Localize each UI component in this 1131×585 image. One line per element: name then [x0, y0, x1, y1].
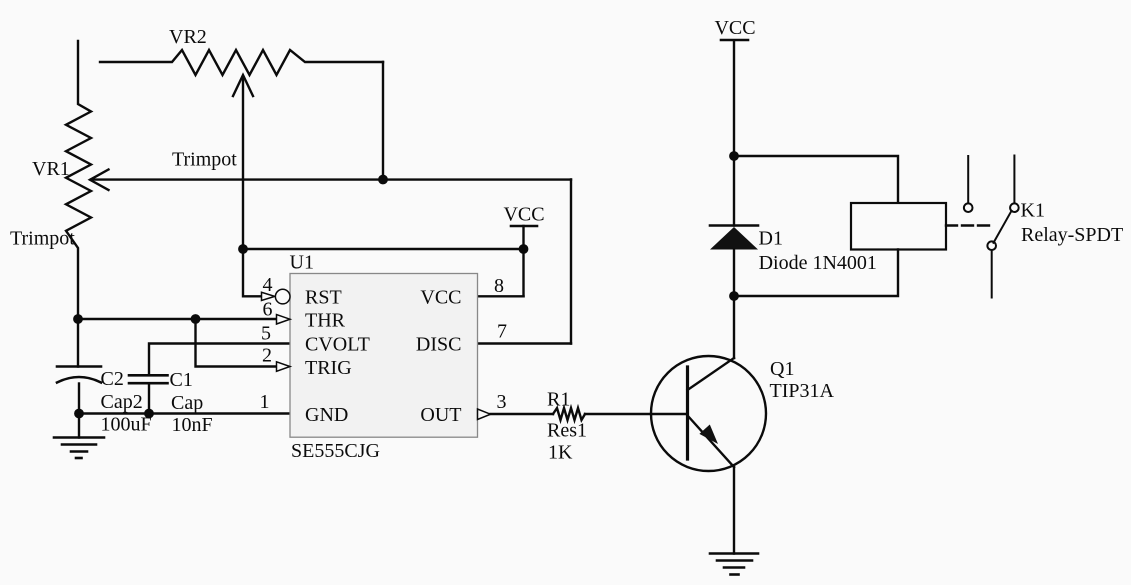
svg-text:VR1: VR1: [32, 158, 70, 180]
op-amp U1 body (555 timer): [290, 274, 478, 438]
power VCC symbol (over pin 8): [503, 204, 544, 297]
node junction RST/VCC branch: [238, 244, 248, 254]
svg-text:CVOLT: CVOLT: [305, 334, 370, 356]
svg-text:TIP31A: TIP31A: [770, 380, 835, 402]
node junction C2/ground: [74, 409, 84, 419]
svg-text:Cap: Cap: [171, 392, 203, 414]
svg-text:VCC: VCC: [503, 204, 544, 226]
pin 4 RST symbol (triangle + bubble): [262, 289, 291, 304]
wire DISC pin 7: [478, 342, 572, 344]
pin 2 TRIG symbol: [277, 362, 291, 372]
svg-text:K1: K1: [1021, 200, 1045, 222]
svg-text:C1: C1: [170, 369, 193, 391]
node junction VR2 right / wiper line: [378, 175, 388, 185]
relay K1 common pole: [987, 241, 996, 297]
node junction THR/TRIG tie: [191, 314, 201, 324]
wire DISC vertical: [570, 180, 572, 344]
svg-text:R1: R1: [547, 389, 570, 411]
svg-text:THR: THR: [305, 310, 346, 332]
wire THR line: [78, 318, 277, 320]
svg-text:6: 6: [263, 299, 273, 321]
transistor Q1 collector diagonal: [688, 358, 735, 390]
svg-text:5: 5: [261, 323, 271, 345]
wire OUT to R1: [491, 413, 554, 415]
transistor Q1 emitter arrow: [699, 425, 718, 445]
svg-text:OUT: OUT: [420, 404, 461, 426]
wire RST branch to VCC rail: [243, 248, 524, 250]
wire collector: [733, 296, 735, 358]
svg-text:TRIG: TRIG: [305, 357, 352, 379]
power VCC symbol top: [714, 17, 755, 40]
svg-text:VR2: VR2: [169, 26, 207, 48]
svg-text:Diode 1N4001: Diode 1N4001: [759, 252, 877, 274]
svg-text:Q1: Q1: [770, 358, 794, 380]
svg-text:VCC: VCC: [420, 287, 461, 309]
svg-text:DISC: DISC: [416, 334, 462, 356]
resistor VR1 wiper arrow: [90, 170, 109, 191]
node junction VCC pin8 branch: [519, 244, 529, 254]
wire relay top: [734, 156, 898, 203]
transistor Q1 base bar: [686, 367, 689, 459]
wire CVOLT line: [149, 344, 290, 376]
ground symbol under Q1: [710, 554, 758, 575]
wire GND line: [79, 412, 290, 414]
wire VCC to diode: [733, 156, 735, 226]
wire relay bottom: [734, 250, 898, 297]
svg-text:U1: U1: [290, 252, 314, 274]
wire R1 to base: [585, 413, 688, 415]
svg-text:3: 3: [497, 391, 507, 413]
diode D1: [710, 226, 758, 250]
svg-text:VCC: VCC: [714, 17, 755, 39]
wire wiper VR1 to DISC: [91, 178, 571, 180]
wire TRIG branch: [196, 319, 277, 367]
wire diode to collector node: [733, 250, 735, 297]
svg-text:Res1: Res1: [547, 420, 587, 442]
capacitor C1: [129, 375, 168, 413]
wire VCC down: [733, 41, 735, 156]
transistor Q1 emitter diagonal: [688, 416, 735, 468]
svg-text:C2: C2: [101, 368, 124, 390]
node junction VCC/relay top: [729, 151, 739, 161]
resistor VR1 body: [66, 41, 91, 367]
svg-text:2: 2: [262, 345, 272, 367]
resistor VR2 body: [100, 50, 383, 75]
relay K1 switch contact left: [964, 156, 973, 212]
resistor VR2 wiper arrow: [233, 75, 253, 96]
svg-text:SE555CJG: SE555CJG: [291, 440, 380, 462]
relay K1 actuator dashed link: [946, 224, 993, 226]
relay K1 coil: [851, 203, 946, 250]
pin 6 THR symbol: [277, 315, 291, 325]
wire VR2 wiper down to RST: [243, 77, 262, 296]
transistor Q1 circle: [651, 356, 766, 471]
svg-text:RST: RST: [305, 287, 342, 309]
svg-text:7: 7: [497, 321, 507, 343]
svg-text:100uF: 100uF: [101, 414, 152, 436]
node junction THR at VR1: [73, 314, 83, 324]
svg-text:8: 8: [494, 275, 504, 297]
node junction relay bottom/collector: [729, 291, 739, 301]
resistor R1 body: [553, 408, 585, 420]
svg-text:Cap2: Cap2: [101, 391, 143, 413]
ground symbol left: [54, 438, 104, 459]
svg-text:10nF: 10nF: [172, 414, 213, 436]
node junction C1/ground: [144, 409, 154, 419]
svg-text:4: 4: [263, 274, 273, 296]
capacitor C2: [57, 367, 101, 414]
pin 3 OUT symbol: [478, 409, 491, 420]
svg-text:Relay-SPDT: Relay-SPDT: [1021, 224, 1123, 246]
svg-text:1K: 1K: [548, 442, 573, 464]
relay K1 switch contact right: [1010, 156, 1019, 213]
svg-text:Trimpot: Trimpot: [172, 149, 237, 171]
wire ground stub left: [78, 414, 80, 438]
wire VR2 right end down: [382, 62, 384, 180]
svg-text:GND: GND: [305, 404, 348, 426]
relay K1 switch arm: [994, 211, 1012, 243]
wire VCC pin 8: [478, 295, 524, 297]
svg-text:1: 1: [260, 391, 270, 413]
wire emitter down: [733, 467, 735, 554]
svg-text:Trimpot: Trimpot: [10, 228, 75, 250]
svg-text:D1: D1: [759, 228, 783, 250]
